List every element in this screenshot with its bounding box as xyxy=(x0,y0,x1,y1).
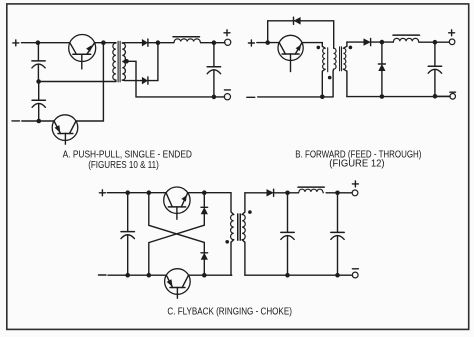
terminal circle output plus A xyxy=(225,39,231,45)
wire Q1 collector to node xyxy=(95,42,116,44)
wire B reset loop xyxy=(268,21,334,48)
terminal circle output minus A xyxy=(224,94,230,100)
transformer T3 core xyxy=(238,214,241,241)
diode D5 freewheel xyxy=(378,42,385,96)
minus terminal input C xyxy=(99,274,107,276)
inductor L1 xyxy=(173,37,201,43)
plus sign output A xyxy=(224,30,230,36)
wire to minus terminal B xyxy=(435,95,450,97)
wire A input top xyxy=(22,42,70,44)
node T3 primary dot xyxy=(225,240,229,244)
node C top cross junction xyxy=(147,190,152,195)
inductor L3 xyxy=(298,187,324,193)
node A mid junction xyxy=(36,79,41,84)
svg-text:A. PUSH-PULL, SINGLE - ENDED: A. PUSH-PULL, SINGLE - ENDED xyxy=(63,149,192,160)
minus bar output B xyxy=(450,91,456,93)
transformer T1 secondary winding xyxy=(122,43,125,80)
node C bottom cap junction xyxy=(125,273,130,278)
node B output plus xyxy=(433,40,438,45)
minus terminal input B xyxy=(247,96,255,98)
transformer T3 primary winding xyxy=(231,215,234,276)
node A minus junction xyxy=(37,119,42,124)
node C output plus xyxy=(335,191,340,196)
capacitor C5 input xyxy=(121,194,134,275)
transformer T3 secondary winding xyxy=(242,193,245,275)
transistor Q4 upper xyxy=(164,187,190,219)
wire secondary bottom to diode D2 xyxy=(122,79,142,82)
wire C bottom rail left xyxy=(108,274,166,276)
wire C top rail xyxy=(107,192,166,194)
node C cap2 bottom xyxy=(335,273,340,278)
plus sign output B xyxy=(449,30,455,36)
capacitor C7 output xyxy=(331,194,344,275)
wire L2 to output xyxy=(419,41,449,43)
wire C bottom rail right xyxy=(245,274,353,276)
diode D6 upper cross xyxy=(201,193,208,226)
wire C primary return corner xyxy=(230,274,233,276)
node C rectified xyxy=(285,191,290,196)
node B freewheel bottom xyxy=(380,94,385,99)
wire A minus rail xyxy=(22,120,54,122)
svg-text:(FIGURES 10 & 11): (FIGURES 10 & 11) xyxy=(88,160,159,171)
transformer T2 reset winding xyxy=(333,48,336,97)
diode D8 series xyxy=(267,189,274,196)
wire secondary top to diode D8 xyxy=(245,192,267,194)
diode D7 lower cross xyxy=(201,242,208,275)
wire A mid rail to transformer primary bottom xyxy=(39,81,116,83)
transistor Q1 xyxy=(69,35,96,69)
node C collector top xyxy=(202,190,207,195)
diode D3 reset (points left) xyxy=(294,17,301,24)
diode D1 xyxy=(142,39,148,46)
node C collector bottom xyxy=(202,273,207,278)
svg-text:C. FLYBACK (RINGING - CHOKE): C. FLYBACK (RINGING - CHOKE) xyxy=(167,306,292,317)
wire D1 to output node xyxy=(148,42,174,44)
wire L1 to output xyxy=(201,42,225,44)
wire cross diagonal upper-right to lower-left xyxy=(149,225,205,275)
node T2 secondary dot xyxy=(349,46,353,50)
transformer T1 core xyxy=(118,41,120,82)
diode D4 series xyxy=(364,39,371,46)
node C top cap junction xyxy=(125,190,130,195)
terminal circle output plus C xyxy=(352,190,358,196)
capacitor C3 output xyxy=(207,44,220,97)
minus bar output A xyxy=(224,89,230,91)
wire L3 to output xyxy=(326,192,352,194)
terminal circle output plus B xyxy=(449,39,455,45)
transformer T2 core xyxy=(340,47,342,71)
wire Q3 emitter to primary xyxy=(302,43,325,49)
transistor Q5 lower xyxy=(165,269,191,299)
node T3 secondary dot xyxy=(248,210,252,214)
wire Q2 to riser xyxy=(76,43,103,121)
wire C primary feed xyxy=(231,193,234,215)
terminal circle output minus B xyxy=(450,94,456,100)
capacitor C4 output xyxy=(428,44,441,97)
wire D2 up to rectified node xyxy=(148,43,158,81)
node C bottom cross junction xyxy=(147,273,152,278)
transformer T2 primary winding xyxy=(322,48,325,97)
node T2 reset dot xyxy=(328,76,332,80)
minus bar output C xyxy=(352,268,358,270)
wire B bottom rail right xyxy=(347,96,450,98)
plus sign output C xyxy=(352,181,358,187)
node B input junction xyxy=(265,40,270,45)
node B primary return xyxy=(320,95,325,100)
diode D2 xyxy=(142,77,148,84)
wire D4 to freewheel node xyxy=(371,41,394,43)
capacitor C1 input upper xyxy=(32,44,45,82)
wire B bottom rail left xyxy=(258,96,333,98)
wire Q5 to bottom collector node xyxy=(189,274,232,276)
minus terminal input A xyxy=(12,120,20,122)
node T2 primary dot xyxy=(317,46,321,50)
wire cross diagonal upper-left to lower-right xyxy=(149,193,205,243)
terminal circle output minus C xyxy=(352,272,358,278)
wire center tap down to output return xyxy=(124,61,213,97)
wire to minus terminal A xyxy=(214,96,225,98)
inductor L2 xyxy=(393,35,420,42)
capacitor C2 input lower xyxy=(32,83,45,121)
transistor Q3 xyxy=(278,35,303,71)
node B output minus xyxy=(433,94,438,99)
node A after Q1 xyxy=(101,40,106,45)
transformer T2 secondary winding xyxy=(343,42,347,97)
transformer T2 inner core line xyxy=(327,48,329,72)
wire B input xyxy=(257,42,279,44)
node A rectified xyxy=(156,40,161,45)
node B rectified xyxy=(380,40,385,45)
plus terminal input C xyxy=(99,190,105,196)
transistor Q2 xyxy=(52,115,78,144)
transformer T1 primary winding xyxy=(113,43,116,82)
plus terminal input B xyxy=(248,40,254,46)
svg-text:(FIGURE 12): (FIGURE 12) xyxy=(329,158,384,169)
plus terminal input A xyxy=(13,40,19,46)
wire Q4 to collector node xyxy=(188,192,231,194)
wire D8 to first cap node xyxy=(274,192,299,194)
wire secondary top to diode D4 xyxy=(347,41,364,43)
node A center tap xyxy=(124,59,129,64)
node A top-left junction xyxy=(36,40,41,45)
wire secondary top to diode D1 xyxy=(122,42,142,44)
node A output plus xyxy=(212,40,217,45)
node A output minus xyxy=(212,95,217,100)
node C cap1 bottom xyxy=(285,273,290,278)
capacitor C6 xyxy=(281,194,294,275)
